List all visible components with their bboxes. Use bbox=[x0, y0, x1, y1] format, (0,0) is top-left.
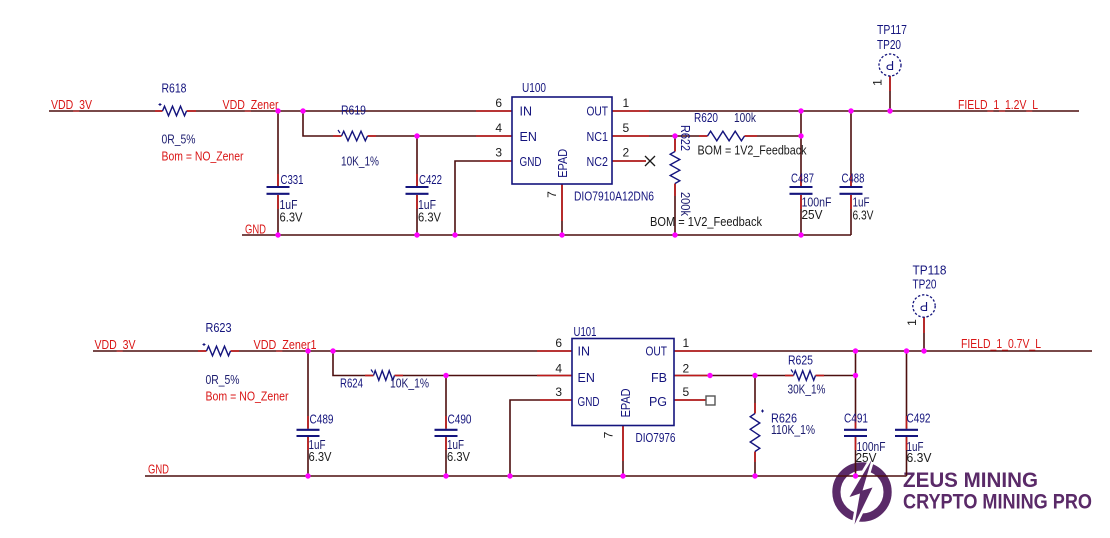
svg-text:GND: GND bbox=[578, 395, 600, 409]
svg-text:P: P bbox=[886, 58, 894, 72]
svg-text:FIELD_1_0.7V_L: FIELD_1_0.7V_L bbox=[961, 336, 1041, 351]
svg-text:6.3V: 6.3V bbox=[418, 210, 441, 225]
svg-text:FIELD_1_1.2V_L: FIELD_1_1.2V_L bbox=[958, 97, 1038, 112]
svg-text:IN: IN bbox=[578, 345, 591, 359]
svg-text:OUT: OUT bbox=[587, 105, 609, 119]
svg-text:R622: R622 bbox=[678, 125, 692, 151]
svg-text:7: 7 bbox=[545, 191, 559, 198]
svg-text:6.3V: 6.3V bbox=[907, 450, 932, 465]
svg-text:EN: EN bbox=[520, 130, 537, 144]
svg-text:1: 1 bbox=[871, 79, 885, 86]
svg-text:VDD_Zener1: VDD_Zener1 bbox=[254, 337, 317, 352]
svg-text:4: 4 bbox=[555, 362, 562, 376]
svg-text:2: 2 bbox=[683, 362, 690, 376]
svg-text:200k: 200k bbox=[678, 192, 692, 217]
svg-text:2: 2 bbox=[623, 146, 630, 160]
svg-text:GND: GND bbox=[245, 222, 266, 237]
svg-text:GND: GND bbox=[148, 462, 169, 477]
svg-text:ZEUS MINING: ZEUS MINING bbox=[903, 468, 1038, 492]
svg-text:IN: IN bbox=[520, 105, 533, 119]
svg-text:R618: R618 bbox=[162, 81, 187, 96]
svg-text:EN: EN bbox=[578, 371, 595, 385]
svg-text:R625: R625 bbox=[788, 353, 813, 368]
svg-text:C422: C422 bbox=[419, 172, 442, 187]
svg-text:Bom = NO_Zener: Bom = NO_Zener bbox=[162, 149, 245, 164]
svg-text:100k: 100k bbox=[734, 110, 756, 125]
svg-text:10K_1%: 10K_1% bbox=[390, 376, 429, 391]
svg-text:U100: U100 bbox=[522, 80, 546, 95]
svg-text:R624: R624 bbox=[340, 376, 363, 391]
svg-text:VDD_3V: VDD_3V bbox=[95, 337, 136, 352]
svg-text:DIO7976: DIO7976 bbox=[636, 430, 676, 445]
svg-text:7: 7 bbox=[602, 431, 616, 438]
svg-text:TP20: TP20 bbox=[877, 37, 901, 52]
svg-text:P: P bbox=[920, 299, 928, 313]
svg-text:R619: R619 bbox=[341, 103, 366, 118]
svg-text:0R_5%: 0R_5% bbox=[206, 372, 240, 387]
svg-text:NC2: NC2 bbox=[587, 155, 609, 169]
svg-text:R623: R623 bbox=[206, 320, 232, 335]
svg-text:6: 6 bbox=[495, 96, 502, 110]
svg-text:C487: C487 bbox=[791, 171, 814, 186]
svg-text:6.3V: 6.3V bbox=[309, 449, 332, 464]
svg-text:C488: C488 bbox=[842, 171, 865, 186]
svg-text:5: 5 bbox=[683, 385, 690, 399]
svg-text:25V: 25V bbox=[856, 450, 877, 465]
svg-text:DIO7910A12DN6: DIO7910A12DN6 bbox=[574, 189, 654, 204]
svg-text:25V: 25V bbox=[802, 207, 823, 222]
svg-text:6.3V: 6.3V bbox=[280, 210, 303, 225]
svg-text:GND: GND bbox=[520, 155, 542, 169]
svg-text:4: 4 bbox=[495, 121, 502, 135]
svg-text:FB: FB bbox=[651, 371, 667, 385]
svg-text:0R_5%: 0R_5% bbox=[162, 132, 196, 147]
svg-text:10K_1%: 10K_1% bbox=[341, 154, 379, 169]
svg-text:NC1: NC1 bbox=[587, 130, 609, 144]
svg-text:1: 1 bbox=[623, 96, 630, 110]
svg-text:TP20: TP20 bbox=[913, 277, 937, 292]
svg-text:6.3V: 6.3V bbox=[853, 208, 874, 223]
svg-text:C492: C492 bbox=[907, 411, 931, 426]
svg-text:3: 3 bbox=[555, 385, 562, 399]
svg-text:OUT: OUT bbox=[646, 345, 668, 359]
svg-text:110K_1%: 110K_1% bbox=[771, 422, 815, 437]
svg-text:TP118: TP118 bbox=[913, 263, 947, 278]
svg-text:EPAD: EPAD bbox=[619, 388, 633, 417]
svg-text:TP117: TP117 bbox=[877, 22, 907, 37]
svg-text:VDD_Zener: VDD_Zener bbox=[223, 97, 280, 112]
svg-text:R620: R620 bbox=[694, 110, 718, 125]
svg-text:5: 5 bbox=[623, 121, 630, 135]
svg-text:1: 1 bbox=[683, 336, 690, 350]
svg-text:VDD_3V: VDD_3V bbox=[51, 97, 92, 112]
svg-text:Bom = NO_Zener: Bom = NO_Zener bbox=[206, 389, 290, 404]
svg-text:6.3V: 6.3V bbox=[447, 449, 470, 464]
svg-text:CRYPTO MINING PRO: CRYPTO MINING PRO bbox=[903, 490, 1092, 514]
svg-text:BOM = 1V2_Feedback: BOM = 1V2_Feedback bbox=[698, 143, 807, 158]
svg-text:EPAD: EPAD bbox=[556, 149, 570, 178]
svg-text:U101: U101 bbox=[574, 324, 597, 339]
svg-text:3: 3 bbox=[495, 146, 502, 160]
svg-text:C491: C491 bbox=[844, 411, 868, 426]
svg-text:1: 1 bbox=[905, 319, 919, 326]
svg-text:30K_1%: 30K_1% bbox=[788, 382, 826, 397]
svg-text:C489: C489 bbox=[310, 412, 334, 427]
svg-text:PG: PG bbox=[649, 395, 667, 409]
svg-text:C331: C331 bbox=[281, 172, 304, 187]
svg-text:BOM = 1V2_Feedback: BOM = 1V2_Feedback bbox=[650, 214, 762, 229]
svg-text:6: 6 bbox=[555, 336, 562, 350]
svg-text:C490: C490 bbox=[448, 412, 472, 427]
